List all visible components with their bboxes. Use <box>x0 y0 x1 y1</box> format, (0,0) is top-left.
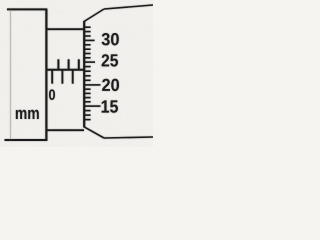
paper background <box>0 0 153 147</box>
thimble top chamfer diagonal <box>84 9 104 22</box>
thimble bottom edge <box>104 137 153 138</box>
label 15 <box>102 100 118 112</box>
sleeve bottom line <box>47 129 84 131</box>
label 0 <box>49 89 55 100</box>
label mm <box>16 110 39 119</box>
label 25 <box>102 54 118 66</box>
label 30 <box>102 33 119 45</box>
labels <box>16 33 119 119</box>
sleeve datum line <box>47 69 85 71</box>
thimble scale ticks <box>85 27 101 119</box>
thimble left edge <box>83 21 85 127</box>
frame left edge (faint) <box>10 10 12 139</box>
sleeve top line <box>47 28 84 30</box>
frame bottom edge <box>5 139 48 141</box>
label 20 <box>102 79 119 91</box>
frame top edge <box>7 8 47 10</box>
thimble bottom chamfer diagonal <box>84 127 104 138</box>
micrometer diagram <box>0 0 153 147</box>
main scale half-mm ticks (above datum) <box>57 59 59 70</box>
main scale mm ticks (below datum) <box>51 70 53 84</box>
frame right edge <box>45 9 47 141</box>
thimble top edge <box>104 5 153 9</box>
